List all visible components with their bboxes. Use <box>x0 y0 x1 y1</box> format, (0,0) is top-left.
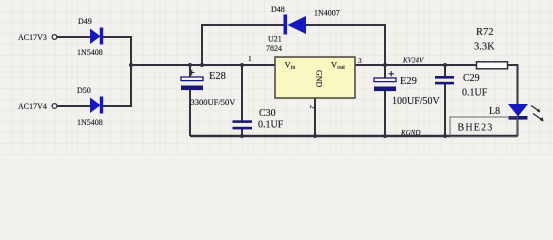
annotation box BHE23 <box>450 117 518 137</box>
wire D49 to join <box>103 36 132 38</box>
wire LED to ground rail <box>517 118 519 136</box>
capacitor E28 <box>181 70 236 107</box>
wire diode join vertical <box>130 37 132 106</box>
wire C29 stem <box>444 65 446 77</box>
LED L8 <box>489 104 544 122</box>
svg-text:7824: 7824 <box>266 44 282 53</box>
junction dots <box>129 63 447 138</box>
svg-text:C29: C29 <box>463 73 480 84</box>
svg-text:3.3K: 3.3K <box>474 42 495 53</box>
wire E29 stem lower <box>384 91 386 136</box>
wire input rail <box>131 64 275 66</box>
svg-text:3: 3 <box>358 56 362 65</box>
terminal AC17V4 <box>52 104 57 109</box>
wire top rail right of D48 <box>306 25 385 78</box>
svg-text:E28: E28 <box>209 71 226 82</box>
svg-text:KGND: KGND <box>400 129 420 137</box>
wire riser to top rail <box>202 25 284 65</box>
svg-text:BHE23: BHE23 <box>458 123 494 134</box>
svg-text:0.1UF: 0.1UF <box>462 88 488 99</box>
wire R72 to LED <box>506 65 518 104</box>
op-amp U21 regulator 7824 <box>248 35 362 110</box>
svg-text:D48: D48 <box>271 5 285 14</box>
svg-text:KV24V: KV24V <box>402 57 424 65</box>
terminal AC17V3 <box>52 35 57 40</box>
wire bottom ground rail <box>190 135 518 137</box>
wire E28 stem <box>189 65 191 78</box>
wire D50 to join <box>103 105 132 107</box>
svg-text:GND: GND <box>315 70 324 88</box>
svg-text:1: 1 <box>248 54 252 63</box>
svg-text:C30: C30 <box>259 108 276 119</box>
wire regulator pin2 <box>314 98 316 136</box>
svg-text:2: 2 <box>308 105 317 109</box>
svg-text:3300UF/50V: 3300UF/50V <box>191 97 237 107</box>
svg-text:D49: D49 <box>78 17 92 26</box>
svg-text:out: out <box>337 65 345 71</box>
capacitor C30 <box>233 108 284 131</box>
wire AC17V3 to D49 <box>57 36 90 38</box>
svg-text:AC17V4: AC17V4 <box>18 102 47 111</box>
svg-text:U21: U21 <box>268 35 282 44</box>
diode D49 <box>77 17 103 57</box>
diode D48 <box>271 5 340 35</box>
capacitor E29 <box>374 71 441 107</box>
wire AC17V4 to D50 <box>57 105 90 107</box>
svg-text:1N5408: 1N5408 <box>77 118 103 127</box>
resistor R72 <box>474 27 508 69</box>
svg-text:AC17V3: AC17V3 <box>18 33 47 42</box>
svg-text:1N4007: 1N4007 <box>314 9 340 18</box>
svg-text:0.1UF: 0.1UF <box>258 120 284 131</box>
svg-text:100UF/50V: 100UF/50V <box>392 96 441 107</box>
capacitor C29 <box>435 73 488 99</box>
svg-text:E29: E29 <box>400 76 417 87</box>
svg-text:L8: L8 <box>489 106 500 117</box>
wire C30 stem <box>241 65 243 121</box>
svg-text:1N5408: 1N5408 <box>77 48 103 57</box>
svg-text:R72: R72 <box>476 27 494 38</box>
wire output rail <box>355 64 477 66</box>
svg-text:D50: D50 <box>77 86 91 95</box>
svg-text:in: in <box>291 65 296 71</box>
diode D50 <box>77 86 103 127</box>
